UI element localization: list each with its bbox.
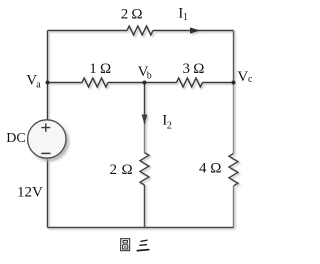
- resistor 2 ohm vertical zigzag: [140, 153, 149, 185]
- svg-text:Ω: Ω: [193, 61, 204, 77]
- wire Vb branch upper: [144, 83, 146, 125]
- svg-text:4: 4: [199, 160, 207, 176]
- voltage source DC 12V circle: [28, 120, 66, 158]
- svg-text:3: 3: [183, 61, 191, 77]
- svg-text:2: 2: [121, 7, 129, 23]
- node Vc dot: [232, 81, 236, 85]
- svg-text:1: 1: [89, 61, 97, 77]
- svg-text:b: b: [147, 71, 152, 82]
- wire right rail upper: [233, 31, 235, 83]
- wire 1 ohm to Vb to 3 ohm: [108, 82, 177, 84]
- resistor 2 ohm (top) zigzag: [127, 26, 153, 35]
- arrowhead I2 down: [142, 115, 148, 125]
- svg-text:12V: 12V: [17, 185, 43, 201]
- wire top rail right segment: [153, 30, 234, 32]
- wire top rail left segment: [48, 30, 128, 32]
- svg-text:V: V: [237, 69, 248, 85]
- wire right rail Vc down to 4ohm: [233, 83, 235, 154]
- svg-text:DC: DC: [6, 131, 25, 146]
- source plus terminal sign: [41, 123, 50, 131]
- resistor 3 ohm zigzag: [177, 78, 203, 87]
- wire left rail upper (Va to top): [47, 31, 49, 83]
- svg-text:1: 1: [183, 12, 188, 23]
- svg-text:c: c: [248, 74, 253, 85]
- svg-text:Ω: Ω: [100, 61, 111, 77]
- wire Vb branch lower: [144, 185, 146, 228]
- wire left rail Va to source top: [47, 83, 49, 121]
- resistor 1 ohm zigzag: [82, 78, 108, 87]
- node Va dot: [46, 81, 50, 85]
- wire Va to 1 ohm: [48, 82, 83, 84]
- wire 3 ohm to Vc: [203, 82, 234, 84]
- wire Vb branch mid: [144, 124, 146, 153]
- svg-text:Ω: Ω: [131, 7, 142, 23]
- svg-text:Ω: Ω: [122, 162, 133, 178]
- source minus terminal sign: [41, 152, 50, 154]
- caption figure-three glyph san: [137, 240, 148, 250]
- wire bottom rail: [48, 227, 234, 229]
- caption figure-three glyph tu: [121, 239, 130, 251]
- svg-text:2: 2: [167, 120, 172, 131]
- svg-text:a: a: [36, 79, 41, 90]
- wire right rail lower: [233, 186, 235, 228]
- node Vb dot: [143, 81, 147, 85]
- resistor 4 ohm vertical zigzag: [229, 154, 238, 186]
- svg-text:2: 2: [110, 162, 118, 178]
- wire source bottom to bottom rail: [47, 158, 49, 228]
- svg-text:Ω: Ω: [210, 160, 221, 176]
- arrowhead I1 right: [190, 27, 200, 33]
